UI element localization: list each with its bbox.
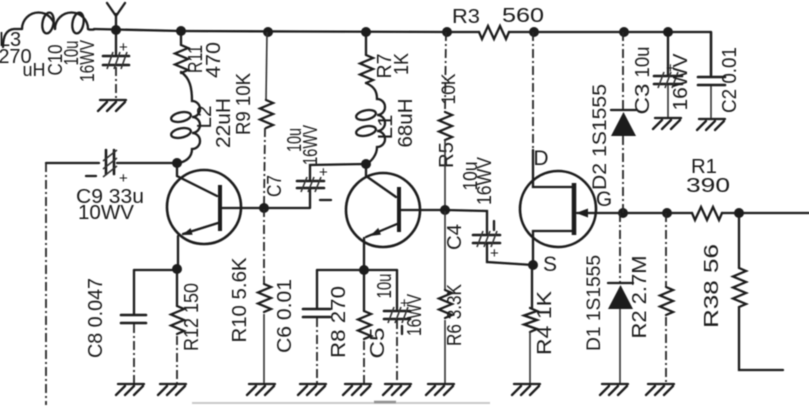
svg-text:C6 0.01: C6 0.01 [274,279,296,353]
ground C8 [116,384,144,395]
svg-text:22uH: 22uH [213,98,235,148]
wire R2 to ground (dash-dot) [665,317,667,383]
wire R9 to base node (dash-dot) [264,128,265,206]
transistor JFET [520,150,596,264]
capacitor C8 [121,315,146,323]
svg-text:+: + [119,170,128,187]
diode D1 1S1555 [608,283,633,309]
ground D1 [600,384,628,395]
wire emitter to C8 [134,269,177,271]
resistor R9 [260,100,273,128]
transistor Q2 [346,164,443,247]
svg-text:C2 0.01: C2 0.01 [719,47,741,113]
wire R6 to ground [444,320,446,383]
wire R5 upper lead (dash-dot) [445,32,446,112]
wire C3 upper lead [667,32,669,75]
svg-text:D1 1S1555: D1 1S1555 [584,255,605,351]
svg-text:C8 0.047: C8 0.047 [85,278,107,358]
svg-text:+: + [490,245,499,262]
ground R10 [247,384,275,395]
resistor R8 [358,311,371,339]
svg-text:uH: uH [22,60,45,80]
wire C2 to ground [710,86,712,118]
wire R10 to ground [263,314,265,383]
node junction R1-R38 [734,208,744,218]
wire R12 to ground (dash-dot) [176,336,178,383]
wire R38 upper lead [738,213,740,268]
wire emitter to C6 and C5 [317,269,397,271]
wire D2 upper lead (dash-dot) [622,32,624,110]
svg-text:16WV: 16WV [670,53,692,111]
wire Q2 emitter down [363,238,365,269]
svg-text:C5: C5 [367,328,389,359]
wire C2 upper lead [710,32,712,76]
resistor R1 [692,207,722,220]
wire C5 upper lead [396,270,398,309]
wire D1 to ground [619,309,621,383]
node junction rail-C10 [111,25,121,35]
ground R4 [512,384,540,395]
resistor R3 [479,26,509,39]
svg-text:16WV: 16WV [300,125,322,165]
ground C5 [383,384,411,395]
svg-text:G: G [596,188,612,211]
node junction L1-C7-Q2 collector [361,159,371,169]
ground C6 [298,384,326,395]
svg-text:D2 1S1555: D2 1S1555 [590,84,611,190]
svg-text:10WV: 10WV [78,202,135,224]
node junction rail-JFET drain [529,27,539,37]
wire R38 output [739,307,783,370]
node junction rail-R9 [263,27,273,37]
wire C3 to ground [667,85,669,117]
wire C7 to L1 node [310,164,365,181]
resistor R11 [175,45,188,73]
minus mark C5 [401,326,403,334]
transistor Q1 [167,163,262,244]
svg-text:L1: L1 [375,115,397,140]
wire D2 to gate (dash-dot) [622,136,624,213]
wire R12 upper lead [176,269,178,306]
svg-text:470: 470 [203,42,225,78]
svg-text:390: 390 [686,175,730,197]
capacitor C6 [303,309,330,317]
node junction rail-R3-R5 [442,27,452,37]
svg-text:R6 3.3K: R6 3.3K [444,283,466,346]
resistor R5 [439,112,452,140]
minus mark C4 [493,221,495,230]
node junction rail-R7 [361,27,371,37]
ground R6 [426,384,454,395]
capacitor C7 [297,177,324,192]
svg-text:S: S [543,253,557,276]
node junction Q1 base / R9-R10 [259,203,269,213]
resistor R7 [360,55,373,83]
wire C5 to ground (dash-dot) [396,320,398,383]
wire R7 lead [365,32,367,55]
wire C6 upper lead [316,270,318,308]
diode D2 1S1555 [611,110,636,136]
svg-text:R2 2.7M: R2 2.7M [629,256,651,339]
wire R4 to ground [529,332,531,383]
wire R8 upper lead [363,270,365,311]
node junction L2-C9-Q1 collector [172,158,182,168]
svg-text:D: D [533,147,548,170]
wire C4 upper lead [445,210,487,233]
svg-text:10u: 10u [632,47,654,78]
svg-text:R5: R5 [436,142,458,168]
svg-text:R10 5.6K: R10 5.6K [229,257,251,343]
wire R5 to Q2 base node [444,140,446,209]
antenna Y terminal [107,3,125,29]
wire C8 to ground (dash-dot) [133,324,135,383]
svg-text:16WV: 16WV [474,156,496,205]
capacitor C5 [384,307,410,323]
ground R12 [158,384,186,395]
wire R8 to ground (dash-dot) [363,341,365,383]
capacitor C4 [473,231,500,247]
node junction JFET source [528,260,538,270]
wire left input column (dash-dot) [45,163,47,405]
wire C4 to source node [487,244,533,265]
capacitor C2 [698,77,725,85]
resistor R12 [171,306,184,334]
resistor R4 [524,308,537,332]
minus mark C7 [320,199,331,201]
wire R6 upper lead [444,210,446,290]
capacitor C3 [654,72,682,88]
inductor L1 [355,83,385,164]
svg-text:+: + [319,164,328,181]
svg-text:1K: 1K [391,52,413,75]
ground R2 [646,384,674,395]
node junction rail-C3 [663,27,673,37]
svg-text:16WV: 16WV [404,293,426,336]
svg-text:R38 56: R38 56 [701,244,723,328]
svg-text:68uH: 68uH [395,99,417,148]
svg-text:R9 10K: R9 10K [233,72,255,135]
wire C10 column [115,30,117,54]
ground C10 [98,100,126,111]
wire R10 upper lead (dash-dot) [263,208,265,284]
svg-text:16WV: 16WV [77,39,99,82]
wire R11 lead [180,31,182,45]
svg-text:R8 270: R8 270 [328,286,350,358]
ground C3 [653,118,681,129]
wire C8 upper lead [133,270,135,314]
wire bottom scan artifact [192,402,490,404]
resistor R10 [258,284,271,312]
svg-text:C4: C4 [444,224,466,250]
node junction gate-R2 [662,208,672,218]
svg-text:R4 1K: R4 1K [534,290,556,355]
resistor R2 [660,287,673,315]
svg-text:C7: C7 [264,175,286,197]
capacitor C9 [46,150,174,177]
wire gate rail [596,212,809,214]
wire D1 upper lead (dash-dot) [619,213,621,283]
ground C2 [697,119,725,130]
wire base node to C7 [264,189,310,208]
svg-text:R12 150: R12 150 [181,283,203,351]
node junction Q1 emitter [172,264,182,274]
svg-text:10K: 10K [439,73,460,104]
node junction rail-D2 [619,27,629,37]
resistor R6 [439,290,452,318]
svg-text:C3: C3 [632,84,654,115]
ground R8 [343,384,371,395]
node junction rail-R11 [176,26,186,36]
wire R9 upper lead [266,32,267,100]
resistor R38 [733,268,746,307]
svg-text:+: + [119,39,128,56]
inductor L2 [170,72,200,163]
wire drain column (dash-dot) [532,32,534,150]
wire C10 to ground (dash-dot) [115,67,117,98]
svg-text:560: 560 [502,5,544,27]
wire R4 upper lead [531,265,533,308]
node junction Q2 emitter [359,265,369,275]
inductor L3 [22,13,55,30]
node junction gate-D2-D1 [618,208,628,218]
minus mark C9 [86,175,96,177]
wire top supply rail [3,29,711,75]
node junction Q2 base / R5-R6-C4 [440,205,450,215]
wire R2 upper lead (dash-dot) [665,213,667,287]
svg-text:R3: R3 [452,6,480,28]
svg-text:10u: 10u [374,274,396,299]
wire C6 to ground (dash-dot) [316,318,318,383]
capacitor C10 [103,52,129,69]
wire Q1 emitter down [177,236,179,268]
